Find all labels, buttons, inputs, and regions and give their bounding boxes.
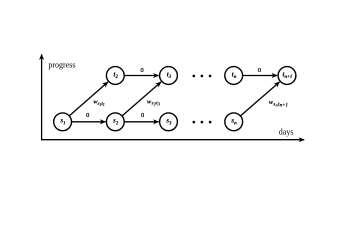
- svg-text:0: 0: [86, 112, 89, 119]
- svg-text:days: days: [279, 128, 294, 137]
- svg-text:0: 0: [258, 67, 261, 74]
- svg-text:progress: progress: [48, 60, 75, 69]
- svg-text:0: 0: [140, 67, 143, 74]
- svg-text:0: 0: [141, 112, 144, 119]
